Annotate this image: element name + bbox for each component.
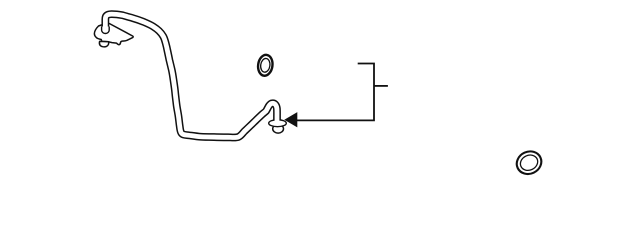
connector flange (top-left fitting) (94, 24, 133, 45)
tube outline (black) (105, 14, 277, 137)
plug end cap at flange (102, 27, 110, 34)
ball tip of lower fitting (273, 125, 284, 134)
connector stud nub (99, 41, 108, 46)
bracket tick (374, 85, 388, 87)
o-ring (bottom-right) (513, 147, 545, 178)
callout bracket leader (297, 64, 374, 121)
tube body (white core) (105, 14, 277, 137)
arrowhead (284, 112, 297, 127)
collar washer of lower fitting (269, 120, 287, 127)
o-ring (middle) (257, 54, 274, 77)
